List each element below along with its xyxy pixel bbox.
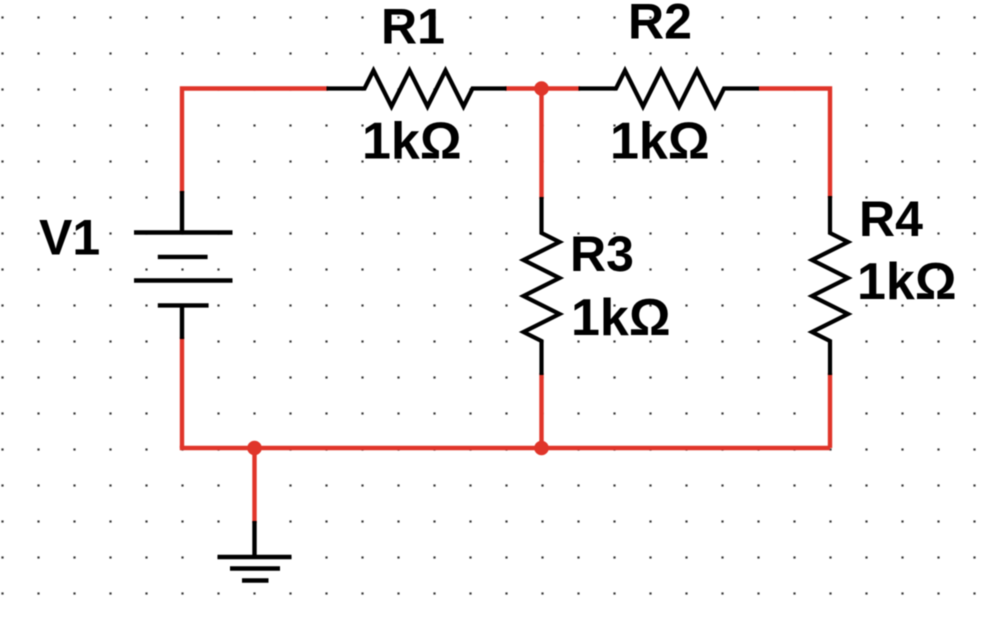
wire: node A to R2 left (540, 86, 580, 90)
ground (218, 521, 292, 581)
svg-text:1kΩ: 1kΩ (857, 253, 957, 311)
node B junction dot (ground node) (247, 441, 262, 456)
svg-text:R1: R1 (381, 0, 445, 55)
wire: R1 right lead to node A (505, 86, 543, 90)
node A junction dot (534, 81, 549, 96)
wire: R3 bottom to bottom rail (539, 373, 543, 448)
resistor R2 (579, 71, 760, 107)
node C junction dot (R3 bottom) (534, 441, 549, 456)
wire: node A down to R3 top (539, 89, 543, 200)
wire: R2 right to R4 top (red corner) (759, 89, 830, 199)
wire: ground stub (252, 448, 256, 523)
resistor R3 (524, 197, 560, 375)
battery V1 (134, 191, 233, 339)
wire: battery top to R1 (red L-shape) (182, 89, 328, 194)
svg-text:V1: V1 (39, 210, 100, 266)
wire: bottom rail (182, 446, 830, 448)
wire: R4 bottom to bottom rail (828, 373, 832, 448)
resistor R1 (327, 71, 507, 107)
svg-text:1kΩ: 1kΩ (571, 289, 671, 347)
svg-text:R2: R2 (628, 0, 692, 50)
svg-text:R3: R3 (570, 226, 634, 282)
svg-text:1kΩ: 1kΩ (610, 113, 710, 171)
svg-text:R4: R4 (859, 191, 923, 247)
wire: battery bottom to bottom rail (180, 337, 184, 448)
svg-text:1kΩ: 1kΩ (362, 113, 462, 171)
resistor R4 (812, 196, 848, 375)
